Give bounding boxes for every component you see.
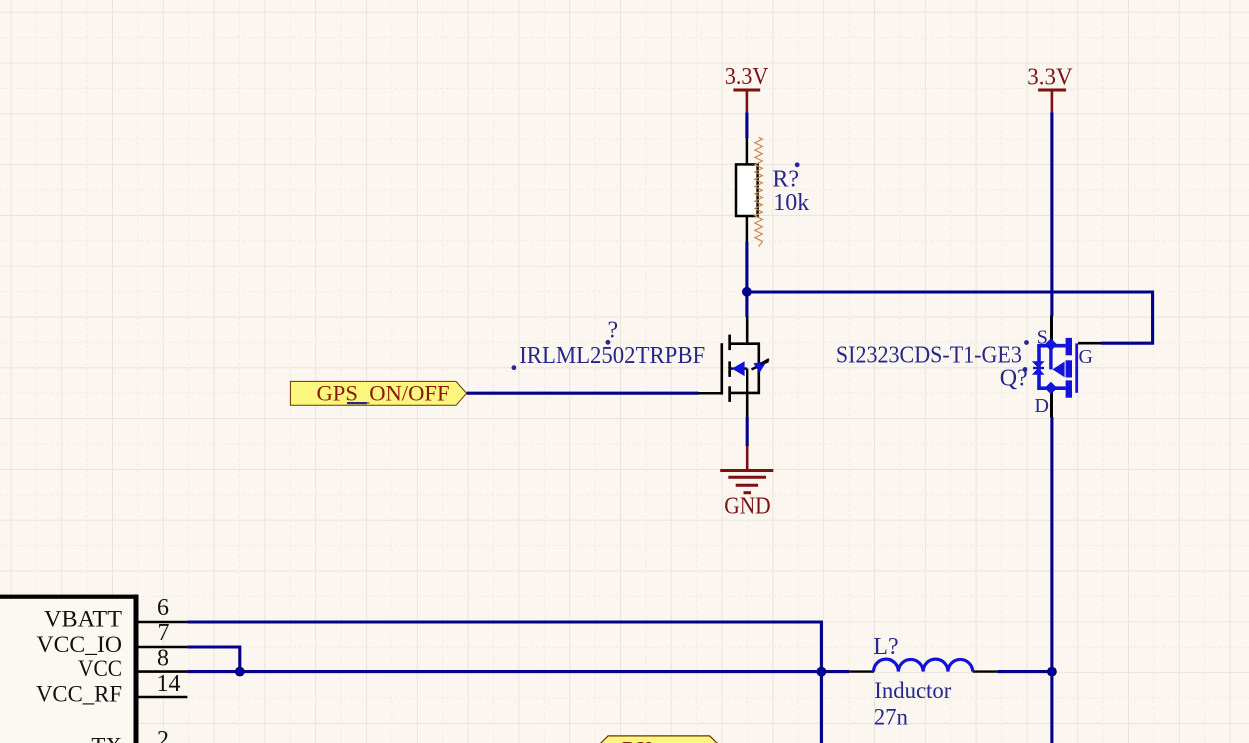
pin 7 VCC_IO [139, 646, 188, 649]
pin 14 VCC_RF [139, 696, 188, 699]
wire Q2 drain down right rail [1050, 417, 1053, 743]
wire inductor to right rail [997, 670, 1052, 673]
svg-text:GND: GND [724, 494, 771, 520]
node junction VBATT/VCC [817, 667, 827, 677]
transistor Q1 IRLML2502TRPBF [699, 317, 770, 418]
svg-text:VCC_IO: VCC_IO [37, 632, 123, 657]
svg-text:14: 14 [157, 671, 181, 697]
svg-text:RX: RX [622, 736, 653, 743]
svg-text:SI2323CDS-T1-GE3: SI2323CDS-T1-GE3 [836, 343, 1022, 369]
wire junction down to Q1 drain [745, 292, 748, 317]
svg-text:S: S [1037, 327, 1048, 349]
svg-text:VBATT: VBATT [44, 607, 122, 632]
svg-text:10k: 10k [773, 190, 809, 216]
net label GPS_ON/OFF [290, 380, 466, 405]
svg-text:D: D [1035, 395, 1049, 417]
power port 3.3V left [725, 64, 769, 112]
resistor R? 10k [736, 137, 809, 247]
power port 3.3V right [1027, 65, 1073, 113]
svg-text:3.3V: 3.3V [1027, 65, 1073, 91]
svg-text:3.3V: 3.3V [725, 64, 769, 90]
node junction inductor/right rail [1047, 667, 1057, 677]
svg-text:IRLML2502TRPBF: IRLML2502TRPBF [519, 343, 705, 369]
svg-text:GPS_ON/OFF: GPS_ON/OFF [317, 380, 450, 405]
IC U? box [0, 595, 139, 743]
wire 3.3V right to Q2 source [1050, 112, 1053, 316]
ground GND [720, 446, 773, 520]
svg-text:TX: TX [91, 734, 122, 743]
wire junction to Q2 gate loop [747, 292, 1153, 343]
svg-text:8: 8 [157, 646, 169, 672]
transistor Q2 SI2323CDS-T1-GE3 [1032, 316, 1101, 418]
pin 8 VCC [139, 670, 188, 673]
svg-text:6: 6 [157, 595, 169, 621]
svg-text:2: 2 [157, 727, 169, 743]
wire GPS_ON/OFF to Q1 gate [467, 392, 699, 395]
wire Q1 source to GND [746, 417, 749, 446]
node junction VCC_IO/VCC [235, 667, 245, 677]
svg-text:7: 7 [158, 620, 170, 646]
inductor L? 27n [849, 634, 997, 729]
svg-text:27n: 27n [874, 704, 909, 729]
svg-text:G: G [1079, 346, 1093, 368]
wire resistor to junction [745, 242, 748, 292]
svg-text:L?: L? [873, 634, 898, 660]
wire VBATT net [187, 622, 821, 743]
svg-text:R?: R? [772, 167, 799, 193]
wire VCC_IO to VCC net [187, 647, 239, 672]
wire VCC net to inductor [187, 670, 849, 673]
pin 6 VBATT [139, 621, 188, 624]
node junction resistor/gate [742, 287, 752, 297]
svg-text:VCC_RF: VCC_RF [36, 681, 122, 706]
wire 3.3V to resistor [745, 112, 748, 138]
net label RX [597, 736, 720, 743]
svg-text:Inductor: Inductor [874, 678, 951, 703]
svg-text:?: ? [608, 318, 619, 344]
svg-text:VCC: VCC [78, 656, 122, 681]
